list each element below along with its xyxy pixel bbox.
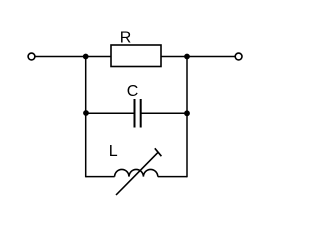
wire bottom-left [86,176,115,178]
svg-text:L: L [109,143,118,160]
resistor R [111,45,161,67]
terminal left [28,53,35,60]
capacitor C [135,99,141,128]
terminal right [235,53,242,60]
svg-text:C: C [127,83,139,100]
svg-text:R: R [120,30,132,47]
inductor L [115,169,158,176]
node junction top-left [83,54,89,60]
wire bottom-right [158,176,187,178]
wire right vertical [186,57,188,178]
wire left vertical [85,57,87,178]
node junction mid-right [184,110,190,116]
adjustable arrow through inductor [116,148,161,195]
node junction top-right [184,54,190,60]
wire resistor to right terminal [161,56,235,58]
wire left to capacitor [86,112,134,114]
wire capacitor to right [142,112,188,114]
wire left terminal to resistor [35,56,111,58]
node junction mid-left [83,110,89,116]
